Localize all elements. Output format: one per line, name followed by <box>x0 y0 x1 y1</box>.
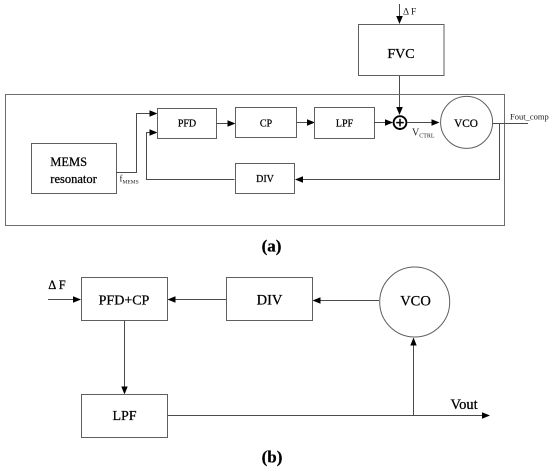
wire VCO to DIV <box>319 300 379 302</box>
svg-text:PFD: PFD <box>178 119 196 130</box>
svg-text:(a): (a) <box>262 237 282 256</box>
wire DIV to PFD (feedback path) <box>147 133 235 180</box>
svg-text:Δ F: Δ F <box>403 8 416 18</box>
svg-text:PFD+CP: PFD+CP <box>99 294 150 309</box>
summing junction <box>394 116 407 129</box>
wire delta-F input to FVC <box>399 4 401 17</box>
svg-text:DIV: DIV <box>257 293 283 309</box>
svg-text:Fout_comp: Fout_comp <box>510 112 549 122</box>
svg-text:(b): (b) <box>262 448 283 467</box>
svg-text:VCO: VCO <box>400 294 431 310</box>
wire VCO output Fout_comp <box>493 123 529 125</box>
block LPF (b) <box>82 395 168 438</box>
svg-text:DIV: DIV <box>256 174 275 185</box>
svg-text:CP: CP <box>260 119 273 130</box>
wire summing junction to VCO <box>408 122 433 124</box>
wire MEMS resonator to PFD <box>117 114 151 173</box>
svg-text:LPF: LPF <box>112 409 136 424</box>
wire LPF output Vout <box>168 415 484 417</box>
svg-text:FVC: FVC <box>387 47 414 62</box>
wire DIV to PFD+CP <box>174 299 226 301</box>
block CP <box>236 108 297 138</box>
block FVC <box>359 25 445 76</box>
block PFD <box>158 109 217 139</box>
wire LPF to summing junction <box>374 122 386 124</box>
svg-text:Vout: Vout <box>451 397 478 413</box>
block VCO (b) <box>380 267 450 337</box>
wire junction up to VCO <box>413 344 415 416</box>
block DIV (b) <box>227 278 313 321</box>
block MEMS resonator <box>32 144 117 194</box>
wire CP to LPF <box>297 122 309 124</box>
wire delta F into PFD+CP <box>48 299 74 301</box>
svg-text:Δ F: Δ F <box>48 278 65 292</box>
outer boundary rectangle of (a) <box>6 95 505 226</box>
block PFD+CP <box>82 278 168 321</box>
wire PFD to CP <box>217 123 229 125</box>
block LPF <box>315 108 375 139</box>
svg-text:VCO: VCO <box>454 118 478 130</box>
svg-text:MEMS: MEMS <box>50 155 87 169</box>
block DIV (a) <box>236 164 295 194</box>
wire VCO output to DIV (feedback) <box>302 124 500 180</box>
svg-text:resonator: resonator <box>50 172 97 186</box>
block VCO (a) <box>441 96 493 148</box>
wire PFD+CP to LPF <box>124 321 126 388</box>
svg-text:LPF: LPF <box>336 119 354 130</box>
wire FVC to summing junction <box>399 76 401 108</box>
